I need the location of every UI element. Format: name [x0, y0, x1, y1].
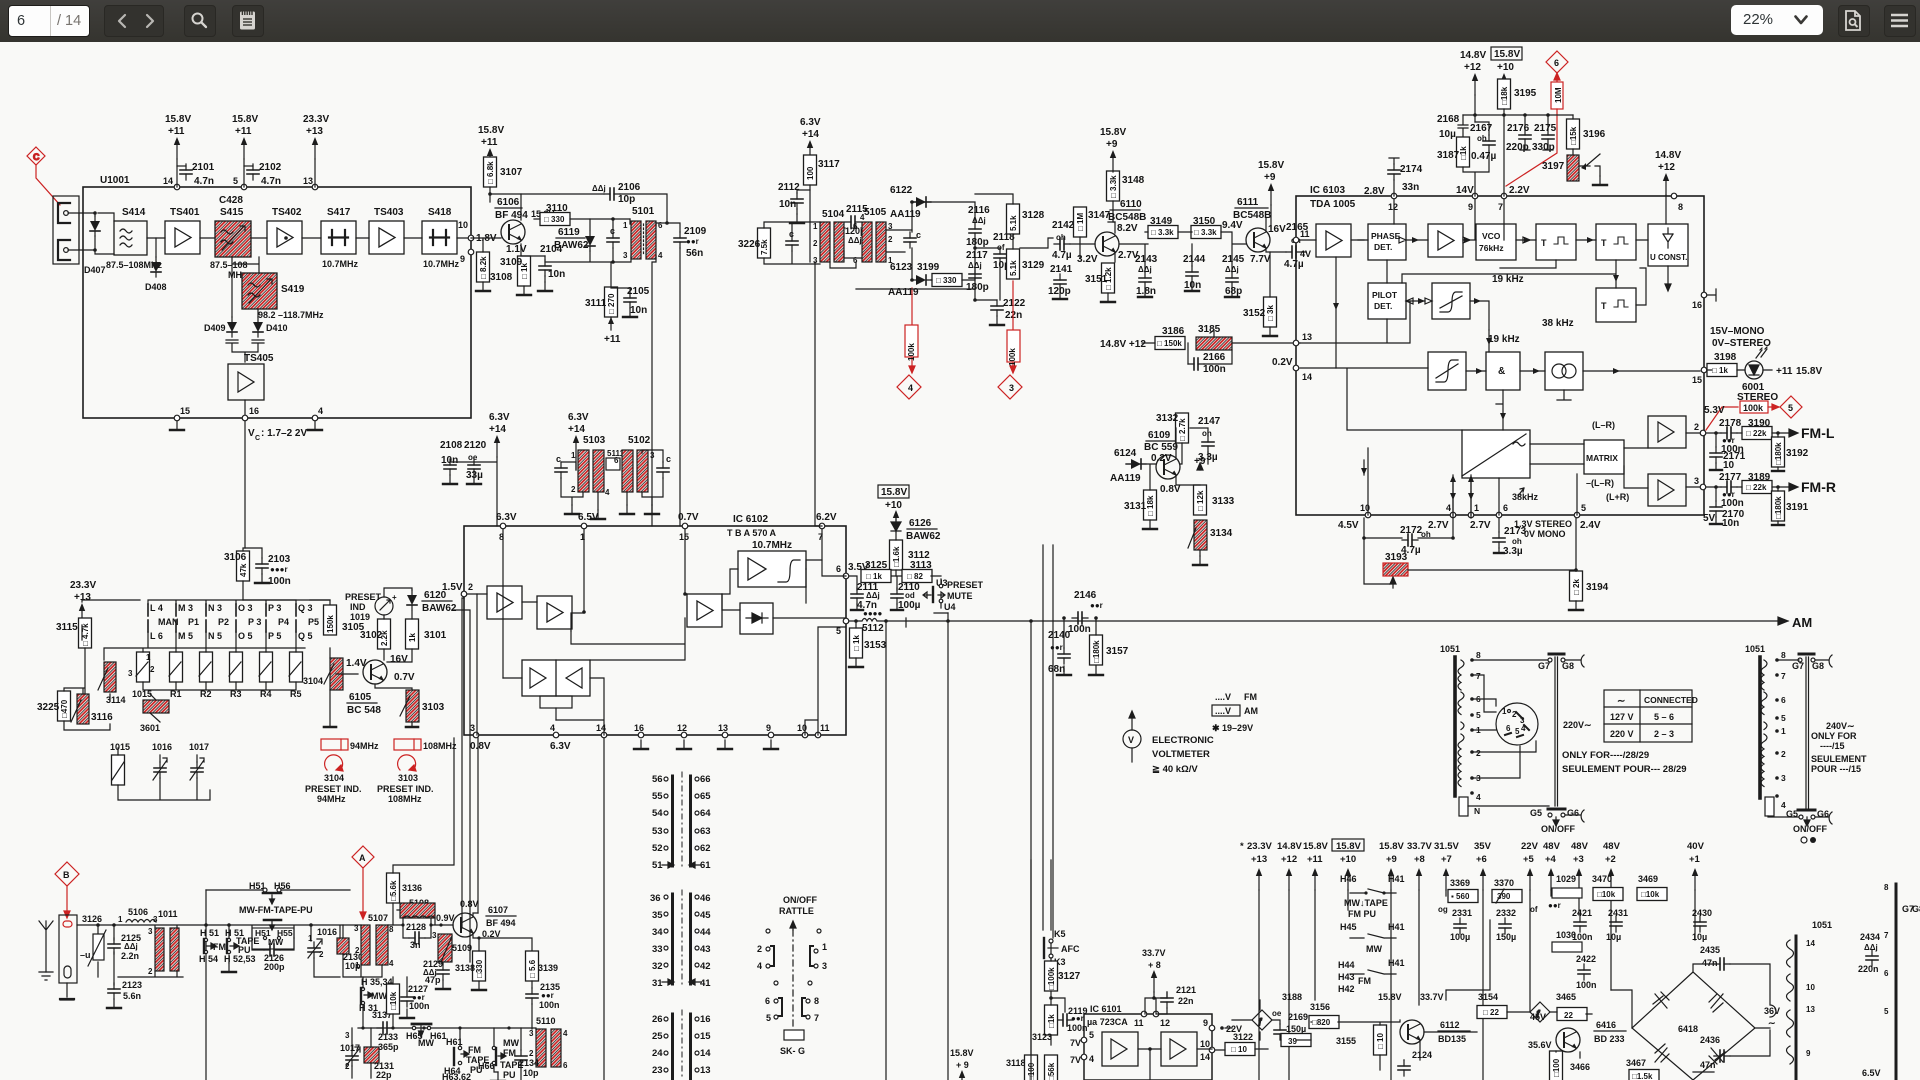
svg-text:ΔΔj: ΔΔj	[866, 591, 880, 600]
bottom pins 3 4 14 16 12 13 9 10 11	[473, 732, 479, 738]
svg-text:0.8V: 0.8V	[1160, 484, 1181, 495]
svg-text:6: 6	[1554, 58, 1559, 68]
wires bottom psu	[1232, 1000, 1592, 1070]
svg-text:10: 10	[1200, 1039, 1210, 1049]
svg-text:3192: 3192	[1786, 448, 1809, 459]
wire input to U1001	[68, 213, 83, 250]
svg-text:FM: FM	[1358, 976, 1371, 986]
svg-text:0.9V: 0.9V	[436, 913, 455, 923]
svg-text:4.7µ: 4.7µ	[1284, 259, 1304, 270]
svg-text:1015: 1015	[110, 742, 130, 752]
svg-text:2: 2	[571, 485, 576, 494]
capacitor 2120 33u	[468, 459, 480, 475]
wires 5104/5105	[764, 222, 912, 268]
svg-text:BD 233: BD 233	[1594, 1034, 1625, 1044]
svg-text:6: 6	[836, 564, 841, 574]
table mains connected	[1604, 690, 1692, 742]
svg-text:PRESET: PRESET	[947, 580, 984, 590]
svg-text:2: 2	[150, 665, 155, 674]
svg-text:15.8V: 15.8V	[232, 114, 258, 125]
svg-text:+11: +11	[168, 126, 185, 137]
amp out R	[1648, 474, 1686, 506]
svg-text:2123: 2123	[122, 980, 142, 990]
svg-text:□ 270: □ 270	[607, 293, 616, 314]
svg-text:6: 6	[853, 222, 858, 231]
svg-text:Q 3: Q 3	[298, 603, 313, 613]
svg-text:5110: 5110	[536, 1016, 556, 1026]
svg-text:U4: U4	[944, 602, 956, 612]
svg-text:3156: 3156	[1310, 1002, 1330, 1012]
svg-text:6: 6	[1884, 969, 1889, 978]
transistor Q 6416 BD233	[1556, 1028, 1580, 1052]
svg-text:2.2n: 2.2n	[121, 951, 139, 961]
svg-text:□ 3.3k: □ 3.3k	[1194, 228, 1217, 237]
svg-text:PRESET: PRESET	[345, 592, 382, 602]
resistor 3153 1k	[850, 628, 863, 658]
svg-text:ƒ: ƒ	[1258, 1017, 1263, 1026]
svg-text:24: 24	[652, 1048, 663, 1059]
svg-text:MW↓TAPE: MW↓TAPE	[1344, 898, 1388, 908]
svg-text:2144: 2144	[1183, 254, 1206, 265]
svg-text:L 4: L 4	[150, 603, 163, 613]
svg-text:C: C	[33, 152, 40, 162]
svg-text:G6: G6	[1567, 808, 1579, 818]
svg-text:+11: +11	[481, 137, 498, 148]
voltmeter symbol	[1123, 730, 1141, 748]
svg-text:14: 14	[163, 176, 173, 186]
svg-text:IC 6101: IC 6101	[1090, 1004, 1122, 1014]
pin 10	[468, 235, 474, 241]
pot 3197 10k (red)	[1567, 155, 1579, 181]
svg-text:1051: 1051	[1812, 920, 1832, 930]
svg-text:–u: –u	[80, 950, 91, 960]
svg-text:15: 15	[1692, 375, 1702, 385]
svg-text:6111: 6111	[1237, 197, 1259, 208]
svg-text:33n: 33n	[1402, 182, 1419, 193]
input socket B	[59, 915, 77, 983]
svg-text:MW-FM-TAPE-PU: MW-FM-TAPE-PU	[239, 905, 313, 915]
svg-text:6: 6	[1503, 503, 1508, 513]
svg-text:3132: 3132	[1156, 413, 1179, 424]
svg-text:10.7MHz: 10.7MHz	[423, 259, 460, 269]
svg-text:□ 18k: □ 18k	[1146, 495, 1155, 516]
svg-text:2332: 2332	[1496, 908, 1516, 918]
svg-text:55: 55	[652, 791, 663, 802]
svg-text:7: 7	[1884, 931, 1889, 940]
svg-text:12: 12	[1388, 202, 1398, 212]
svg-text:O 3: O 3	[238, 603, 253, 613]
svg-text:N: N	[1474, 806, 1480, 816]
svg-text:0.7V: 0.7V	[678, 512, 699, 523]
svg-text:+: +	[392, 593, 397, 602]
capacitor 2126 200p	[264, 944, 280, 956]
svg-text:P 5: P 5	[268, 631, 281, 641]
svg-text:2106: 2106	[618, 182, 641, 193]
svg-text:6120: 6120	[424, 590, 447, 601]
capacitor 2122 22n	[991, 300, 1003, 316]
svg-text:□100k: □100k	[1047, 967, 1056, 990]
svg-text:2128: 2128	[406, 922, 426, 932]
resistor 3187 1k	[1457, 137, 1470, 167]
diamond 3465	[1530, 1002, 1550, 1022]
svg-text:oe: oe	[468, 453, 478, 462]
svg-text:6: 6	[765, 996, 770, 1006]
svg-text:14: 14	[700, 1048, 711, 1059]
svg-text:41: 41	[700, 978, 711, 989]
amp TS405	[228, 364, 264, 400]
svg-text:BC 559: BC 559	[1144, 442, 1178, 453]
svg-text:+13: +13	[74, 592, 91, 603]
svg-text:100k: 100k	[907, 343, 916, 361]
svg-text:2169: 2169	[1288, 1012, 1308, 1022]
svg-text:10: 10	[1723, 460, 1735, 471]
svg-text:54: 54	[652, 808, 663, 819]
svg-text:MW: MW	[371, 991, 387, 1001]
svg-text:11: 11	[1134, 1018, 1144, 1028]
svg-text:1011: 1011	[158, 909, 178, 919]
transistor Q 6106 BF494	[501, 220, 525, 244]
svg-text:45V: 45V	[1530, 1012, 1546, 1022]
svg-text:3225: 3225	[37, 702, 60, 713]
resistor 3101 1k	[406, 619, 419, 649]
block detector diode	[740, 603, 773, 634]
resistor 3149 3.3k	[1148, 226, 1178, 239]
wires 6105	[243, 588, 412, 726]
svg-text:15.8V: 15.8V	[1100, 127, 1126, 138]
220V line	[1555, 657, 1558, 806]
svg-text:8: 8	[1678, 202, 1683, 212]
svg-text:1030: 1030	[1556, 930, 1576, 940]
svg-text:16: 16	[700, 1014, 711, 1025]
svg-text:AM: AM	[1244, 706, 1258, 716]
svg-text:□ 3.3k: □ 3.3k	[1109, 175, 1118, 198]
svg-text:●●●●: ●●●●	[863, 609, 882, 618]
svg-text:6.3V: 6.3V	[550, 741, 571, 752]
svg-text:52: 52	[652, 843, 663, 854]
svg-text:240V∼: 240V∼	[1826, 721, 1855, 731]
svg-text:3109: 3109	[500, 257, 523, 268]
svg-text:6123: 6123	[890, 262, 913, 273]
svg-text:0.2V: 0.2V	[1151, 453, 1172, 464]
svg-text:23.3V: 23.3V	[303, 114, 329, 125]
svg-text:G8: G8	[1912, 904, 1920, 914]
svg-text:4: 4	[757, 961, 762, 971]
svg-text:6122: 6122	[890, 185, 913, 196]
svg-text:7V: 7V	[1070, 1055, 1081, 1065]
svg-text:CONNECTED: CONNECTED	[1644, 695, 1698, 705]
amp TS401	[165, 221, 200, 254]
svg-text:2147: 2147	[1198, 416, 1221, 427]
svg-text:BD135: BD135	[1438, 1034, 1466, 1044]
G7 G8 bar right	[1799, 653, 1814, 656]
pin 13	[1293, 340, 1299, 346]
svg-text:3191: 3191	[1786, 502, 1809, 513]
wires ladder	[64, 600, 330, 730]
svg-text:15.8V: 15.8V	[478, 125, 504, 136]
resistor 3132 2.7k	[1176, 413, 1189, 443]
diode D409	[227, 317, 237, 337]
svg-text:53: 53	[652, 826, 663, 837]
legend boxed V AM	[1212, 705, 1240, 716]
connector bank 36-31/46-41	[673, 890, 691, 988]
svg-text:3111: 3111	[585, 298, 607, 309]
wires 6110	[1070, 222, 1115, 262]
svg-text:3469: 3469	[1638, 874, 1658, 884]
wires plug	[1468, 660, 1549, 806]
svg-text:C: C	[255, 435, 260, 442]
svg-text:T: T	[1601, 238, 1607, 248]
svg-text:10n: 10n	[1722, 518, 1739, 529]
svg-text:31: 31	[652, 978, 663, 989]
svg-text:3103: 3103	[398, 773, 418, 783]
pin 1	[581, 523, 587, 529]
svg-text:●●r: ●●r	[541, 991, 554, 1000]
svg-text:ONLY FOR: ONLY FOR	[1811, 731, 1857, 741]
svg-text:□ 1k: □ 1k	[1712, 366, 1729, 375]
svg-text:2142: 2142	[1052, 220, 1075, 231]
svg-text:94MHz: 94MHz	[317, 794, 346, 804]
capacitor 2128 3n	[403, 918, 431, 936]
svg-text:0.8V: 0.8V	[470, 741, 491, 752]
svg-text:150k: 150k	[326, 615, 335, 633]
svg-text:FM-R: FM-R	[1801, 479, 1836, 495]
pin 15	[682, 523, 688, 529]
svg-text:1051: 1051	[1440, 644, 1460, 654]
svg-text:7: 7	[1476, 671, 1481, 681]
svg-text:6106: 6106	[497, 197, 520, 208]
svg-text:3108: 3108	[490, 272, 513, 283]
svg-text:S418: S418	[428, 207, 452, 218]
svg-text:G8: G8	[1812, 661, 1824, 671]
svg-text:3131: 3131	[1124, 501, 1147, 512]
filter S414	[114, 221, 147, 255]
svg-text:L 6: L 6	[150, 631, 163, 641]
svg-text:3370: 3370	[1494, 878, 1514, 888]
svg-text:2121: 2121	[1176, 985, 1196, 995]
net 100k to 4 (red)	[897, 288, 921, 399]
block MATRIX	[1584, 440, 1624, 474]
svg-text:●●r: ●●r	[1548, 901, 1561, 910]
svg-text:22: 22	[1564, 1011, 1573, 1020]
svg-text:2102: 2102	[259, 162, 282, 173]
svg-text:3465: 3465	[1556, 992, 1576, 1002]
svg-text:3116: 3116	[91, 712, 113, 723]
resistor 3115 4.7k	[79, 618, 92, 648]
svg-text:2140: 2140	[1048, 630, 1071, 641]
svg-text:□ 330: □ 330	[544, 215, 565, 224]
svg-text:10p: 10p	[523, 1068, 539, 1078]
svg-text:□ 8.2k: □ 8.2k	[479, 256, 488, 279]
svg-text:87.5–108: 87.5–108	[210, 260, 248, 270]
IC U IC6102 TBA570A box	[464, 526, 846, 735]
diode 6126 BAW62	[891, 519, 901, 540]
svg-text:P4: P4	[278, 617, 289, 627]
svg-text:5 – 6: 5 – 6	[1654, 712, 1674, 722]
svg-text:TS402: TS402	[272, 207, 302, 218]
svg-text:9: 9	[1806, 1049, 1811, 1058]
svg-text:2143: 2143	[1135, 254, 1158, 265]
svg-text:3133: 3133	[1212, 496, 1235, 507]
svg-text:●●r: ●●r	[1050, 643, 1063, 652]
svg-text:180p: 180p	[966, 237, 989, 248]
svg-text:13: 13	[303, 176, 313, 186]
svg-text:ON/OFF: ON/OFF	[1793, 824, 1827, 834]
svg-text:c: c	[666, 454, 671, 464]
svg-text:T: T	[1541, 238, 1547, 248]
pin 4	[312, 415, 318, 421]
svg-text:□ 22k: □ 22k	[1746, 429, 1767, 438]
supply 15.8V +10 boxed	[878, 485, 909, 498]
svg-text:10.7MHz: 10.7MHz	[752, 540, 792, 551]
svg-text:3152: 3152	[1243, 308, 1266, 319]
svg-text:108MHz: 108MHz	[423, 741, 457, 751]
fuse N	[1459, 797, 1468, 816]
svg-text:c: c	[916, 230, 921, 240]
svg-text:ON/OFF: ON/OFF	[1541, 824, 1575, 834]
svg-text:+11: +11	[1307, 854, 1323, 865]
capacitor c	[904, 232, 916, 248]
pin 2	[1700, 430, 1706, 436]
svg-text:56: 56	[652, 774, 663, 785]
pin 5	[241, 184, 247, 190]
svg-text:365p: 365p	[378, 1042, 399, 1052]
capacitor 2174 33n	[1388, 164, 1400, 180]
svg-text:2421: 2421	[1572, 908, 1592, 918]
svg-text:□5.6k: □5.6k	[389, 880, 398, 901]
svg-text:8: 8	[814, 996, 819, 1006]
svg-text:2: 2	[319, 950, 324, 959]
svg-text:+2: +2	[1605, 854, 1616, 865]
svg-text:∼: ∼	[1617, 696, 1625, 707]
svg-text:3126: 3126	[82, 914, 102, 924]
svg-text:H45: H45	[1340, 922, 1357, 932]
svg-text:□ 12k: □ 12k	[1196, 490, 1205, 511]
svg-text:5107: 5107	[368, 913, 388, 923]
svg-text:3: 3	[1694, 476, 1699, 486]
svg-text:38kHz: 38kHz	[1512, 492, 1539, 502]
svg-text:3151: 3151	[1085, 274, 1108, 285]
svg-text:10: 10	[458, 220, 468, 230]
svg-text:0.47µ: 0.47µ	[1471, 151, 1496, 162]
svg-text:6.3V: 6.3V	[489, 412, 510, 423]
resistor 3151 1.2k	[1102, 263, 1115, 293]
G5 G6 bar right	[1798, 809, 1815, 812]
svg-text:44: 44	[700, 927, 711, 938]
svg-text:0.8V: 0.8V	[460, 899, 479, 909]
svg-text:□180k: □180k	[1774, 442, 1783, 465]
wires 6123	[912, 248, 975, 280]
switch block H51 H55 MW	[252, 928, 294, 949]
svg-text:64: 64	[700, 808, 711, 819]
svg-text:2435: 2435	[1700, 945, 1720, 955]
svg-text:15: 15	[700, 1031, 711, 1042]
svg-text:V: V	[1128, 735, 1134, 745]
svg-text:23.3V: 23.3V	[1247, 841, 1272, 852]
svg-text:4: 4	[605, 488, 610, 497]
svg-text:35: 35	[652, 910, 663, 921]
svg-text:3: 3	[345, 1031, 350, 1040]
svg-text:□56k: □56k	[1047, 1062, 1056, 1080]
svg-text:1019: 1019	[350, 612, 370, 622]
svg-text:V: V	[248, 428, 255, 439]
svg-text:+ 9: + 9	[956, 1060, 969, 1070]
svg-text:∼: ∼	[1768, 1018, 1776, 1028]
output FM-L	[1772, 429, 1798, 437]
svg-text:19 kHz: 19 kHz	[1492, 274, 1524, 285]
svg-text:23: 23	[652, 1065, 663, 1076]
svg-text:A: A	[359, 853, 366, 863]
svg-text:□1k: □1k	[1459, 146, 1468, 160]
resistor 3137 10k	[387, 984, 400, 1014]
svg-text:D410: D410	[266, 323, 288, 333]
svg-text:+9: +9	[1264, 172, 1276, 183]
svg-text:D408: D408	[145, 282, 167, 292]
svg-text:ELECTRONIC: ELECTRONIC	[1152, 735, 1214, 746]
wire to 2142	[1020, 238, 1053, 248]
arrow marks internal	[1333, 237, 1620, 500]
resistor 3195 18k	[1498, 79, 1511, 109]
svg-text:6112: 6112	[1440, 1020, 1460, 1030]
resistor 3131 18k	[1144, 490, 1157, 520]
svg-text:2145: 2145	[1222, 254, 1245, 265]
svg-text:2: 2	[1476, 748, 1481, 758]
svg-text:9: 9	[1203, 1018, 1208, 1028]
block 10.7MHz amp+limiter	[738, 551, 806, 587]
pin 13	[312, 184, 318, 190]
svg-text:AM: AM	[1792, 615, 1812, 630]
svg-text:4: 4	[1446, 503, 1451, 513]
misc bottom wires	[948, 545, 1232, 1080]
svg-text:16: 16	[249, 406, 259, 416]
svg-text:48V: 48V	[1603, 841, 1621, 852]
svg-text:1: 1	[1502, 707, 1507, 716]
wires 6111 out	[1266, 218, 1306, 252]
svg-text:P1: P1	[188, 617, 199, 627]
svg-text:3: 3	[1009, 383, 1014, 393]
svg-text:: 1.7–2 2V: : 1.7–2 2V	[261, 428, 307, 439]
svg-text:45: 45	[700, 910, 711, 921]
svg-text:1016: 1016	[317, 927, 337, 937]
svg-text:2434: 2434	[1860, 932, 1880, 942]
svg-text:2: 2	[813, 239, 818, 248]
svg-text:3106: 3106	[224, 552, 247, 563]
svg-text:3127: 3127	[1058, 971, 1081, 982]
svg-text:2.2V: 2.2V	[1509, 185, 1530, 196]
svg-text:3188: 3188	[1282, 992, 1302, 1002]
svg-text:+14: +14	[568, 424, 585, 435]
svg-text:BAW62: BAW62	[422, 603, 457, 614]
resistor 3198 1k	[1707, 364, 1737, 377]
svg-text:100n: 100n	[1576, 980, 1597, 990]
svg-text:6109: 6109	[1148, 430, 1171, 441]
varicap caps under D409 D410	[226, 340, 264, 362]
pot 3134 (red)	[1194, 520, 1207, 550]
resistor 3112 1.6k	[890, 540, 903, 570]
svg-text:5103: 5103	[583, 435, 606, 446]
svg-text:42: 42	[700, 961, 711, 972]
svg-text:□1k: □1k	[1047, 1014, 1056, 1028]
svg-text:B: B	[63, 870, 70, 880]
svg-text:+12: +12	[1658, 162, 1675, 173]
svg-text:□470: □470	[60, 699, 69, 718]
svg-text:3155: 3155	[1336, 1036, 1356, 1046]
svg-text:N 3: N 3	[208, 603, 222, 613]
svg-text:1.1V: 1.1V	[506, 244, 527, 255]
svg-text:3194: 3194	[1586, 582, 1609, 593]
svg-text:5.1k: 5.1k	[1009, 260, 1018, 276]
svg-text:2: 2	[1694, 422, 1699, 432]
svg-text:100k: 100k	[1743, 403, 1764, 413]
